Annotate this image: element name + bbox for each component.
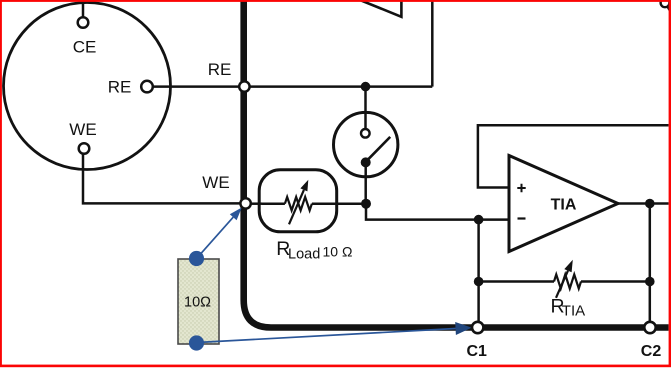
svg-text:C2: C2 <box>641 343 662 360</box>
wire RLoad to junction <box>312 202 366 205</box>
node RE <box>239 81 249 91</box>
switch body circle <box>334 112 398 176</box>
wire into switch top contact <box>364 113 367 129</box>
annotation highlight resistor box 10 ohm <box>178 259 219 344</box>
junction dot at inverting input <box>474 215 484 225</box>
svg-text:TIA: TIA <box>551 197 577 214</box>
svg-text:Load: Load <box>288 246 320 262</box>
wire RLoad junction to TIA inverting input <box>366 204 509 220</box>
resistor RLoad variable arrow <box>289 190 304 224</box>
junction dot RTIA right <box>645 277 655 287</box>
wire through RLoad box <box>262 202 285 205</box>
annotation arrow to WE node <box>199 217 233 256</box>
plus input marker <box>517 184 525 192</box>
junction dot at output <box>645 199 655 209</box>
wire inverting node down to C1 <box>477 220 480 328</box>
node stub top-right corner <box>661 0 671 12</box>
resistor RTIA variable arrow <box>556 271 568 298</box>
wire RTIA branch <box>479 280 650 283</box>
wire WE terminal to WE node <box>83 154 240 203</box>
minus input marker <box>518 217 526 219</box>
resistor RLoad zigzag <box>285 197 312 210</box>
node WE <box>240 198 250 208</box>
op-amp (partial, top edge) <box>358 0 402 17</box>
junction dot RTIA left <box>474 277 484 287</box>
resistor RLoad enclosure <box>259 170 337 232</box>
svg-text:10Ω: 10Ω <box>184 294 211 310</box>
node C1 <box>472 322 483 333</box>
node C2 <box>644 322 655 333</box>
annotation probe dot top <box>189 251 204 266</box>
wire WE node to RLoad <box>249 202 262 205</box>
svg-text:WE: WE <box>202 173 229 192</box>
wire junction down into switch <box>364 87 367 129</box>
thick WE bus wire <box>244 0 669 328</box>
switch lever <box>367 137 390 160</box>
wire TIA output <box>618 202 669 205</box>
electrochemical cell body <box>4 3 171 170</box>
svg-text:RE: RE <box>108 77 132 96</box>
annotation probe dot bottom <box>189 335 204 350</box>
junction dot above switch <box>361 82 371 92</box>
svg-text:10 Ω: 10 Ω <box>323 244 353 260</box>
switch top contact <box>361 129 370 138</box>
op-amp U1 TIA <box>509 156 618 252</box>
wire CE terminal lead <box>82 0 85 17</box>
wire output down to C2 <box>649 204 652 328</box>
wire TIA noninverting feedback (top rail) <box>478 125 669 187</box>
svg-text:WE: WE <box>69 120 96 139</box>
wire switch to RLoad junction <box>364 164 367 203</box>
svg-text:CE: CE <box>73 38 97 57</box>
junction dot at RLoad output <box>361 199 371 209</box>
terminal WE <box>79 143 90 154</box>
terminal CE <box>78 17 89 28</box>
switch bottom contact dot <box>361 157 371 167</box>
svg-text:TIA: TIA <box>562 302 585 319</box>
annotation arrow to C1 node <box>197 329 456 343</box>
svg-text:C1: C1 <box>466 343 487 360</box>
terminal RE <box>141 81 153 93</box>
resistor RTIA zigzag <box>554 275 581 289</box>
wire RE terminal to RE node <box>153 85 243 88</box>
wire riser to top amplifier <box>431 0 434 87</box>
svg-text:RE: RE <box>208 60 232 79</box>
wire RE node to CE driver branch <box>247 85 432 88</box>
